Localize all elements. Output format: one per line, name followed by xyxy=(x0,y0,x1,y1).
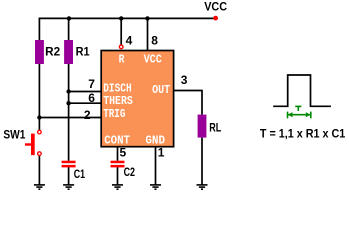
svg-text:R: R xyxy=(119,53,125,67)
svg-text:TRIG: TRIG xyxy=(103,107,125,121)
ground under C2 xyxy=(112,185,123,189)
junction THERS xyxy=(66,101,70,105)
wire RL bottom to ground xyxy=(201,138,203,185)
wire pin 2 TRIG xyxy=(39,117,101,119)
junction R1 top xyxy=(67,16,71,20)
wire pin 8 from rail xyxy=(147,18,149,50)
junction pin4 rail xyxy=(119,16,123,20)
resistor R1 xyxy=(64,40,73,64)
wire pin 4 reset from rail xyxy=(120,18,122,45)
svg-text:3: 3 xyxy=(181,73,188,87)
ground under SW1 xyxy=(34,185,45,189)
wire pin 7 DISCH xyxy=(69,91,101,93)
svg-text:RL: RL xyxy=(209,121,221,135)
svg-text:6: 6 xyxy=(88,91,95,105)
label T green xyxy=(295,106,301,111)
ground under RL xyxy=(197,185,208,189)
ground under C1 xyxy=(63,185,74,189)
capacitor C1 xyxy=(62,161,76,168)
svg-text:1: 1 xyxy=(158,146,165,160)
svg-text:7: 7 xyxy=(88,77,95,91)
resistor RL xyxy=(198,115,207,138)
junction TRIG xyxy=(37,115,41,119)
capacitor C2 xyxy=(111,161,125,168)
svg-text:VCC: VCC xyxy=(144,53,162,67)
wire pin 3 OUT to RL xyxy=(173,91,202,115)
svg-text:R2: R2 xyxy=(45,44,60,58)
wire SW1 bottom to ground xyxy=(38,155,40,184)
wire pin 5 CONT to C2 xyxy=(117,147,119,160)
svg-text:2: 2 xyxy=(84,108,91,122)
svg-text:4: 4 xyxy=(126,34,133,48)
svg-text:C2: C2 xyxy=(124,165,136,179)
wire pin 6 THERS xyxy=(69,102,101,104)
wire C2 bottom to ground xyxy=(117,167,119,185)
switch SW1 pushbutton xyxy=(25,130,41,155)
wire top rail from R2 corner to VCC dot xyxy=(39,18,215,40)
wire pin 1 GND to ground xyxy=(155,147,157,184)
svg-text:VCC: VCC xyxy=(204,0,227,14)
svg-text:5: 5 xyxy=(120,146,127,160)
svg-text:8: 8 xyxy=(151,33,158,47)
wire R1 top from rail to R1 xyxy=(68,18,70,40)
resistor R2 xyxy=(35,40,44,64)
wire R2 bottom down to SW1 xyxy=(38,64,40,130)
svg-text:T = 1,1 x R1 x C1: T = 1,1 x R1 x C1 xyxy=(260,127,346,141)
op: IC U1 555 body xyxy=(101,51,173,147)
ground under pin 1 xyxy=(150,185,161,189)
waveform pulse xyxy=(273,75,331,106)
svg-text:R1: R1 xyxy=(76,44,90,58)
dimension T green xyxy=(288,112,311,119)
wire R1 bottom down to C1 xyxy=(68,64,70,161)
junction pin8 rail xyxy=(145,16,149,20)
svg-text:SW1: SW1 xyxy=(3,128,25,142)
wire C1 bottom to ground xyxy=(68,167,70,185)
node VCC dot xyxy=(213,16,218,21)
svg-text:C1: C1 xyxy=(74,167,86,181)
svg-text:OUT: OUT xyxy=(152,83,170,97)
pin 4 reset terminal circle xyxy=(119,45,123,49)
junction DISCH xyxy=(66,89,70,93)
